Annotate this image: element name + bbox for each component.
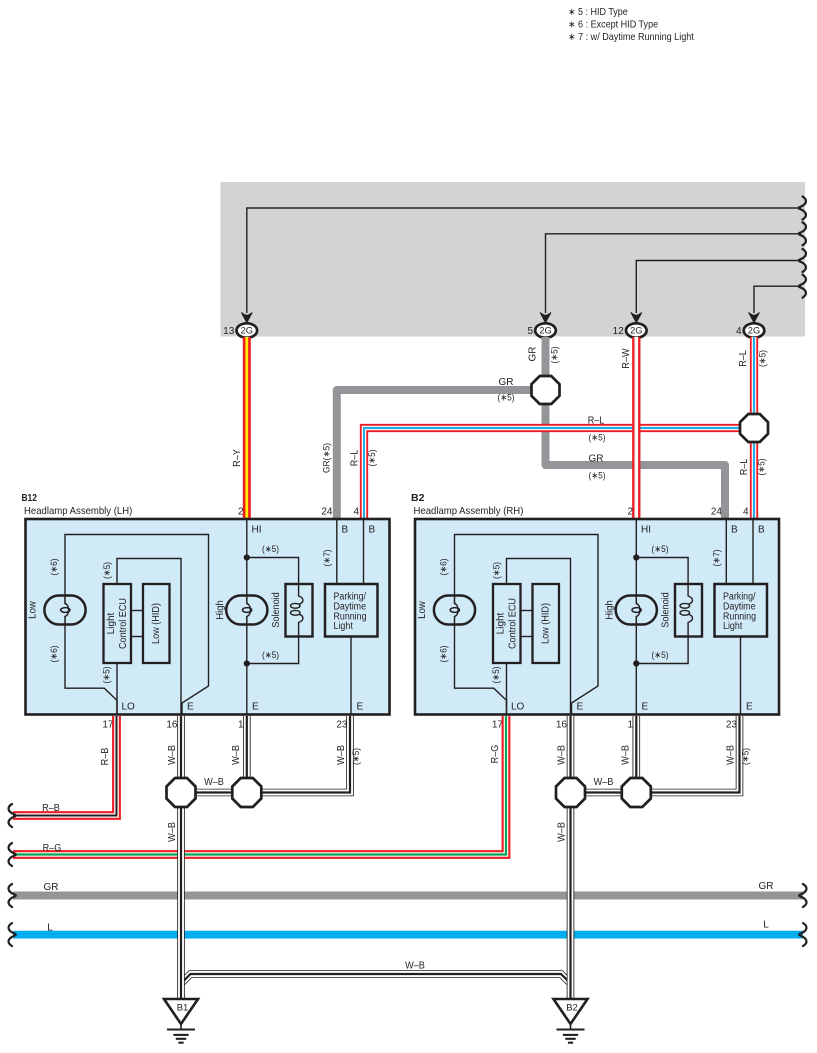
- svg-text:Control ECU: Control ECU: [118, 598, 129, 649]
- solenoid box: [675, 584, 702, 637]
- svg-text:Headlamp Assembly (RH): Headlamp Assembly (RH): [414, 505, 524, 517]
- svg-text:(∗5): (∗5): [758, 350, 769, 367]
- wire low-beam bottom to LO: [65, 625, 117, 715]
- svg-text:GR: GR: [759, 881, 774, 892]
- svg-text:R–L: R–L: [350, 449, 361, 466]
- wire B pin 24 to parking light: [725, 519, 727, 584]
- svg-text:4: 4: [743, 507, 749, 518]
- wires ECU to Low (HID): [131, 610, 143, 612]
- wire W-B from pin 23 to junction: [636, 716, 739, 793]
- junction dot lower: [244, 660, 250, 666]
- svg-text:Low: Low: [27, 601, 39, 619]
- svg-text:High: High: [604, 600, 616, 620]
- svg-text:W–B: W–B: [621, 745, 632, 765]
- svg-text:(∗5): (∗5): [262, 544, 279, 555]
- svg-text:5: 5: [527, 326, 533, 337]
- squiggle L right: [799, 923, 806, 946]
- Parking/Daytime Running Light box: [715, 584, 768, 637]
- wire W-B from pin 1 to junction: [632, 716, 640, 793]
- wire R-L horizontal from LH pin 4 to junction J2: [364, 428, 741, 520]
- wire R-L from 2G pin 4 through junction J2 to RH pin 4: [750, 337, 758, 520]
- svg-text:(∗5): (∗5): [262, 650, 279, 661]
- svg-text:B2: B2: [566, 1003, 578, 1014]
- junction dot upper: [244, 554, 250, 560]
- ground B2: [554, 999, 588, 1024]
- wire W-B from pin 16 through junction to ground: [567, 716, 575, 999]
- svg-text:E: E: [746, 702, 753, 713]
- svg-text:(∗7): (∗7): [712, 549, 723, 566]
- wire GR from junction J1 down/right to RH pin 24: [546, 402, 726, 520]
- bulb High (LH): filament: [247, 596, 251, 625]
- svg-text:(∗6): (∗6): [439, 558, 450, 575]
- wire low-beam top loop: [455, 535, 599, 715]
- svg-text:W–B: W–B: [167, 745, 178, 765]
- wires ECU to Low (HID): [521, 610, 533, 612]
- wire upper branch to solenoid: [636, 558, 688, 585]
- bulb Low (RH): filament: [455, 596, 459, 625]
- svg-text:4: 4: [353, 507, 359, 518]
- bulb Low (RH): lamp body: [434, 596, 475, 625]
- wire continuation squiggle: [799, 275, 806, 298]
- svg-text:E: E: [577, 702, 584, 713]
- svg-text:Light: Light: [496, 612, 507, 634]
- svg-text:Light: Light: [723, 621, 743, 632]
- wire R-B from LH pin 17 to left: [13, 716, 117, 816]
- svg-text:Solenoid: Solenoid: [271, 592, 282, 628]
- svg-text:16: 16: [556, 720, 568, 731]
- junction dot upper: [633, 554, 639, 560]
- svg-text:W–B: W–B: [594, 777, 614, 788]
- ground B1: [164, 999, 198, 1024]
- wire LO pin to ECU: [116, 663, 118, 714]
- svg-text:∗ 6 : Except HID Type: ∗ 6 : Except HID Type: [568, 20, 658, 31]
- bulb Low (LH): filament: [65, 596, 69, 625]
- svg-text:(∗5): (∗5): [550, 346, 561, 363]
- wire upper branch to solenoid: [247, 558, 299, 585]
- svg-text:2G: 2G: [539, 326, 551, 336]
- wire low-beam bottom to LO: [455, 625, 507, 715]
- wire lower branch to solenoid: [247, 637, 299, 664]
- junction block 2G (gray box): [221, 182, 806, 337]
- svg-text:12: 12: [613, 326, 625, 337]
- svg-text:Low: Low: [416, 601, 428, 619]
- junction octagon B: [622, 778, 651, 807]
- wire L bottom rail: [13, 931, 803, 939]
- svg-text:Low (HID): Low (HID): [151, 603, 162, 644]
- svg-text:13: 13: [223, 326, 235, 337]
- bulb Low (LH): lamp body: [44, 596, 85, 625]
- svg-text:R–B: R–B: [42, 803, 60, 814]
- wire W-B between junctions: [571, 789, 637, 797]
- svg-text:16: 16: [166, 720, 178, 731]
- svg-text:HI: HI: [252, 525, 262, 536]
- svg-text:∗ 5 : HID Type: ∗ 5 : HID Type: [568, 7, 628, 18]
- svg-text:4: 4: [736, 326, 742, 337]
- svg-text:(∗5): (∗5): [651, 650, 668, 661]
- Parking/Daytime Running Light box: [325, 584, 378, 637]
- wire parking light to E pin 23: [740, 637, 742, 715]
- svg-text:E: E: [357, 702, 364, 713]
- svg-text:B: B: [342, 525, 349, 536]
- junction dot lower: [633, 660, 639, 666]
- svg-text:R–L: R–L: [588, 416, 605, 427]
- svg-text:GR: GR: [589, 454, 604, 465]
- svg-text:(∗5): (∗5): [102, 562, 113, 579]
- wire ECU top to E pin 16: [507, 559, 571, 715]
- svg-text:B1: B1: [177, 1003, 189, 1014]
- connector 2G pin 13: [237, 323, 258, 337]
- svg-text:R–G: R–G: [490, 744, 501, 763]
- junction octagon A: [556, 778, 585, 807]
- svg-text:GR(∗5): GR(∗5): [322, 443, 333, 473]
- squiggle R-G left: [9, 843, 16, 866]
- svg-text:R–Y: R–Y: [232, 449, 243, 467]
- svg-text:R–W: R–W: [621, 348, 632, 369]
- svg-text:GR: GR: [499, 377, 514, 388]
- svg-text:2G: 2G: [241, 326, 253, 336]
- svg-text:(∗5): (∗5): [588, 433, 605, 444]
- wire GR bottom rail: [13, 892, 803, 900]
- junction J2 (octagon): [740, 414, 768, 442]
- svg-text:Light: Light: [334, 621, 354, 632]
- svg-text:(∗5): (∗5): [651, 544, 668, 555]
- wire feed inside junction block: [754, 286, 801, 313]
- wire W-B between junctions: [181, 789, 247, 797]
- svg-text:(∗5): (∗5): [367, 449, 378, 466]
- Low (HID) box: [143, 584, 170, 663]
- svg-text:B: B: [758, 525, 765, 536]
- svg-text:24: 24: [711, 507, 723, 518]
- wire continuation squiggle: [799, 197, 806, 220]
- squiggle L left: [9, 923, 16, 946]
- junction octagon B: [232, 778, 261, 807]
- wire B pin 4 to parking light: [363, 519, 365, 584]
- wire HI pin through High bulb to E pin 1: [635, 519, 637, 714]
- svg-text:R–G: R–G: [43, 843, 62, 854]
- svg-text:2: 2: [627, 507, 633, 518]
- wire W-B from pin 23 to junction: [247, 716, 350, 793]
- Light Control ECU box: [104, 584, 132, 663]
- svg-text:W–B: W–B: [726, 745, 737, 765]
- svg-text:(∗6): (∗6): [49, 558, 60, 575]
- svg-text:B2: B2: [411, 492, 425, 504]
- squiggle GR right: [799, 884, 806, 907]
- wire R-Y from 2G pin 13 to LH pin 2: [243, 337, 251, 520]
- junction octagon A: [167, 778, 196, 807]
- svg-text:L: L: [47, 922, 53, 933]
- wire GR from junction J1 left to LH pin 24: [337, 390, 533, 520]
- svg-text:W–B: W–B: [405, 960, 425, 971]
- svg-text:R–L: R–L: [738, 350, 749, 367]
- svg-text:LO: LO: [122, 702, 136, 713]
- svg-text:24: 24: [321, 507, 333, 518]
- arrow into connector: [749, 313, 760, 323]
- wire feed inside junction block: [247, 208, 801, 313]
- svg-text:Low (HID): Low (HID): [541, 603, 552, 644]
- svg-text:(∗5): (∗5): [757, 458, 768, 475]
- arrow into connector: [540, 313, 551, 323]
- svg-text:R–L: R–L: [739, 458, 750, 475]
- Light Control ECU box: [493, 584, 521, 663]
- svg-text:L: L: [763, 920, 769, 931]
- svg-text:W–B: W–B: [231, 745, 242, 765]
- svg-text:W–B: W–B: [204, 777, 224, 788]
- wire low-beam top loop: [65, 535, 209, 715]
- svg-text:2G: 2G: [748, 326, 760, 336]
- wire GR from 2G pin 5 down to junction J1: [542, 337, 550, 377]
- arrow into connector: [631, 313, 642, 323]
- svg-text:Headlamp Assembly (LH): Headlamp Assembly (LH): [24, 505, 132, 517]
- Low (HID) box: [533, 584, 560, 663]
- squiggle GR left: [9, 884, 16, 907]
- squiggle R-B left: [9, 804, 16, 827]
- solenoid coil: [299, 584, 303, 604]
- svg-text:R–B: R–B: [100, 747, 111, 765]
- svg-text:W–B: W–B: [167, 822, 178, 842]
- wire W-B from pin 1 to junction: [243, 716, 251, 793]
- wire parking light to E pin 23: [350, 637, 352, 715]
- svg-text:LO: LO: [511, 702, 525, 713]
- svg-text:B12: B12: [22, 492, 38, 504]
- svg-text:W–B: W–B: [557, 745, 568, 765]
- svg-text:GR: GR: [44, 882, 59, 893]
- svg-text:(∗6): (∗6): [439, 645, 450, 662]
- solenoid coil: [688, 584, 692, 604]
- bulb High (RH): lamp body: [616, 596, 657, 625]
- svg-text:(∗5): (∗5): [491, 666, 502, 683]
- wire B pin 24 to parking light: [336, 519, 338, 584]
- wire continuation squiggle: [799, 249, 806, 272]
- svg-text:E: E: [252, 702, 259, 713]
- svg-text:E: E: [187, 702, 194, 713]
- svg-text:GR: GR: [528, 347, 539, 362]
- svg-text:B: B: [369, 525, 376, 536]
- svg-text:(∗5): (∗5): [492, 562, 503, 579]
- svg-text:Control ECU: Control ECU: [508, 598, 519, 649]
- headlamp assembly B2 (RH) box: [415, 519, 779, 715]
- wire LO pin to ECU: [506, 663, 508, 714]
- junction J1 (octagon): [532, 376, 560, 404]
- wire W-B linking grounds B1-B2: [181, 974, 571, 984]
- wire R-W from 2G pin 12 to RH pin 2: [632, 337, 640, 520]
- wire B pin 4 to parking light: [752, 519, 754, 584]
- bulb High (LH): lamp body: [226, 596, 267, 625]
- svg-text:(∗5): (∗5): [102, 666, 113, 683]
- solenoid box: [286, 584, 313, 637]
- svg-text:∗ 7 : w/ Daytime Running Light: ∗ 7 : w/ Daytime Running Light: [568, 32, 694, 43]
- svg-text:W–B: W–B: [557, 822, 568, 842]
- wire feed inside junction block: [636, 261, 801, 314]
- headlamp assembly B12 (LH) box: [26, 519, 390, 715]
- svg-text:(∗5): (∗5): [741, 748, 752, 765]
- svg-text:2: 2: [238, 507, 244, 518]
- svg-text:(∗6): (∗6): [49, 645, 60, 662]
- svg-text:E: E: [642, 702, 649, 713]
- wire ECU top to E pin 16: [117, 559, 181, 715]
- svg-text:HI: HI: [641, 525, 651, 536]
- wire HI pin through High bulb to E pin 1: [246, 519, 248, 714]
- wire W-B from pin 16 through junction to ground: [177, 716, 185, 999]
- svg-text:(∗5): (∗5): [497, 393, 514, 404]
- svg-text:B: B: [731, 525, 738, 536]
- wire continuation squiggle: [799, 222, 806, 245]
- connector 2G pin 12: [626, 323, 647, 337]
- svg-text:W–B: W–B: [336, 745, 347, 765]
- bulb High (RH): filament: [636, 596, 640, 625]
- svg-text:2G: 2G: [630, 326, 642, 336]
- wire R-G from left to RH pin 17: [13, 716, 506, 855]
- svg-text:High: High: [214, 600, 226, 620]
- svg-text:Solenoid: Solenoid: [661, 592, 672, 628]
- wire lower branch to solenoid: [636, 637, 688, 664]
- connector 2G pin 4: [744, 323, 765, 337]
- svg-text:Light: Light: [106, 612, 117, 634]
- arrow into connector: [241, 313, 252, 323]
- connector 2G pin 5: [535, 323, 556, 337]
- svg-text:(∗5): (∗5): [588, 471, 605, 482]
- svg-text:(∗5): (∗5): [351, 748, 362, 765]
- svg-text:(∗7): (∗7): [322, 549, 333, 566]
- wire feed inside junction block: [546, 234, 802, 313]
